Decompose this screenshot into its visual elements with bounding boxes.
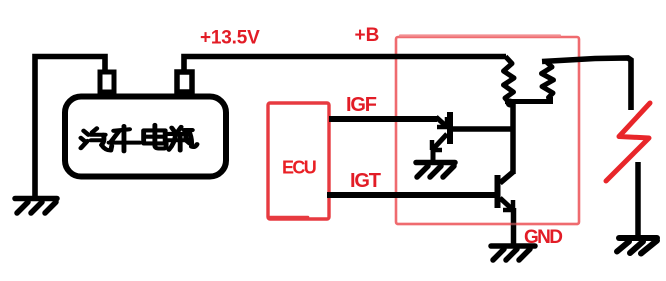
transistor Q2 collector (500, 172, 513, 183)
secondary winding L2 (542, 62, 554, 100)
svg-text:ECU: ECU (282, 158, 316, 178)
wire: Q1 collector to rail (451, 126, 513, 132)
wire IGF from ECU (329, 116, 437, 122)
wire: secondary to spark plug (542, 58, 631, 110)
wire: coil common link (505, 97, 551, 102)
wire IGT from ECU (327, 192, 495, 198)
车 (109, 126, 140, 151)
spark plug E1 (red arc) (606, 103, 650, 181)
transistor Q1 emitter (432, 134, 447, 150)
wire: spark plug to ground (635, 162, 641, 238)
svg-text:IGT: IGT (350, 170, 381, 192)
node A: coil common junction (506, 99, 515, 108)
wire: collector rail (510, 103, 516, 174)
transistor Q1 base bar (447, 112, 453, 144)
igniter box bottom edge overlay (397, 223, 578, 225)
ground (battery, left) (15, 199, 57, 214)
wire: battery negative to ground (left) (35, 57, 105, 197)
svg-text:IGF: IGF (346, 94, 377, 116)
transistor Q1 base arrow (436, 117, 447, 127)
igniter box (red) (396, 36, 579, 225)
battery BT1 (65, 97, 226, 177)
电 (144, 125, 166, 145)
汽 (81, 131, 88, 148)
transistor Q2 emitter (500, 198, 513, 210)
wire: +13.5V / +B rail from battery positive to coil (184, 57, 506, 73)
battery terminal (positive, right) (177, 72, 192, 92)
ECU box U1 (268, 103, 329, 219)
svg-text:+13.5V: +13.5V (200, 28, 260, 49)
ground (Q2 / igniter GND) (491, 246, 535, 260)
battery terminal (negative, left) (100, 72, 114, 92)
svg-text:+B: +B (355, 25, 380, 46)
primary winding L1 (504, 57, 515, 102)
battery label 汽车电瓶 (drawn glyphs) (81, 125, 197, 151)
ground (spark plug, right) (617, 238, 657, 254)
ground (Q1) (416, 163, 455, 178)
瓶 (167, 127, 184, 140)
wire: Q1 emitter to ground (431, 149, 436, 163)
transistor Q2 base bar (495, 175, 501, 208)
wire: Q2 emitter to ground (511, 208, 517, 245)
